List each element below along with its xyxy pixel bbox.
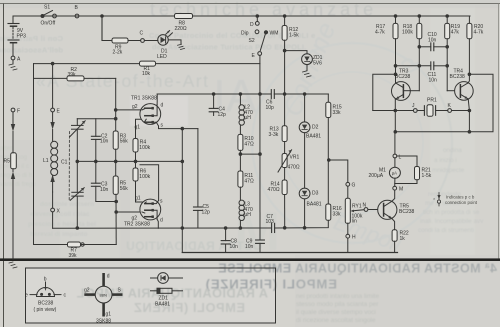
svg-text:10n: 10n [100,187,109,193]
wire L to M1 [394,158,396,167]
node X [51,208,55,212]
junction node D stub [256,15,259,18]
node B [75,14,79,18]
junction W1 centre column [259,93,262,96]
wire R4 to bus [135,152,137,161]
svg-text:BA481: BA481 [306,134,321,140]
wire X down to AF row [52,212,54,228]
junction TR4 emitter J row [468,109,471,112]
junction R18 [418,15,421,18]
wire R20 to collector junction [468,39,470,75]
LED D1 [158,31,173,46]
svg-text:g1: g1 [106,312,112,318]
junction [101,15,104,18]
wire stub to D [256,16,258,22]
wire R10 R11 [239,150,241,171]
svg-text:47k: 47k [451,30,460,36]
svg-text:56k: 56k [120,186,129,192]
svg-text:33k: 33k [333,110,342,116]
wire TR3 emitter down [394,99,396,132]
svg-text:G: G [352,183,356,189]
svg-text:Dip: Dip [241,31,249,37]
wire to ZD1 [285,51,307,54]
junction W1 L2 [239,93,242,96]
junction emitter J row [394,109,397,112]
wire K to TR4 emitter [452,110,470,112]
svg-text:4-7k: 4-7k [375,30,385,36]
svg-text:2-2k: 2-2k [113,50,123,56]
svg-text:10n: 10n [245,244,254,250]
node L [393,154,397,158]
resistor R5 [113,176,118,194]
svg-text:C1: C1 [61,160,68,166]
svg-text:LED: LED [157,54,167,60]
wire TR4 emitter down [468,99,469,111]
junction C10 left [418,46,421,49]
wire TR4 collector up [468,74,470,83]
wire R5a to bottom rail [12,179,14,259]
svg-text:connection point: connection point [445,200,478,205]
MOSFET TR1 [140,104,161,126]
svg-text:g1: g1 [135,125,141,131]
BC238 pin view [30,282,62,297]
svg-text:10n: 10n [429,78,438,84]
svg-text:D3: D3 [312,191,319,197]
meter M1 [389,167,400,178]
transistor TR4 [455,82,474,101]
wire R13 to VR1 [284,142,286,154]
audio bus [77,160,182,162]
junction centre column tap [259,153,262,156]
bottom headline mirrored row1 [76,239,497,315]
ground D1 [178,44,185,49]
wire centre column from E [259,55,261,239]
svg-text:1-5k: 1-5k [289,33,299,39]
svg-text:d: d [161,103,164,109]
wire collector stub left [373,74,396,110]
legend pcb symbol [433,193,441,207]
switch S2 contacts [255,30,259,34]
junction L3 AF row [239,227,242,230]
svg-text:R5: R5 [4,159,11,165]
wire R19 to TR4 base [447,90,460,92]
svg-text:d: d [160,218,163,224]
junction g2 [114,109,117,112]
wire tap to centre column [240,153,260,155]
wire R21 bottom [395,180,417,184]
zener ZD1 [302,54,313,65]
3SK88 labels [84,274,122,325]
junction W1 R13 col [283,93,286,96]
svg-text:220Ω: 220Ω [175,26,187,32]
wire to R18 [418,16,420,23]
svg-text:47Ω: 47Ω [244,178,254,184]
resistor R14 [282,180,287,195]
junction tap [239,153,242,156]
svg-text:lin: lin [352,219,357,225]
wire drain bus W1 [157,93,271,95]
thin 0V rail [182,252,397,254]
pcb point above R5a [11,112,15,132]
wire D1 to ground [168,40,181,44]
junction TR4 collector [468,73,471,76]
svg-text:470Ω: 470Ω [268,187,280,193]
junction C11 left [394,65,397,68]
junction G tap [328,159,331,162]
wire TR3 base to R18 col [410,90,419,92]
wire C3 down to corner [96,186,116,201]
wire J to PR1 [417,110,424,112]
svg-text:39k: 39k [68,72,77,78]
svg-text:4-7k: 4-7k [474,30,484,36]
inductor L2 [239,94,244,134]
wire L1 to X [52,192,54,208]
svg-text:D2: D2 [312,125,319,131]
bottom headline mirrored row2 [205,277,337,292]
wire R5 column lower [115,194,117,244]
svg-text:BC238: BC238 [450,74,466,80]
junction bus C2 [95,160,98,163]
capacitor C5 [194,129,203,228]
svg-text:BC238: BC238 [395,74,411,80]
wiper RV1 [351,210,365,213]
capacitor C2 [91,136,100,139]
wire C3 column [95,161,97,183]
pcb point below R5a [11,169,15,179]
wire to R19 [446,16,448,23]
switch S2 WM contact [264,31,267,34]
resistor R6 [133,168,138,181]
wire TR1 source down [159,126,198,129]
svg-text:470Ω: 470Ω [288,165,300,171]
wire E up to R1 row [52,64,54,109]
connection circle right of R7 [81,243,84,246]
svg-text:12p: 12p [218,112,227,118]
wire R9 to C [128,40,141,42]
resistor R16 [326,204,331,220]
wire R4 top / g1 TR1 [136,119,147,138]
svg-text:µA: µA [392,171,397,176]
junction emitter meter row [394,131,397,134]
node M [393,186,397,190]
svg-text:10k: 10k [142,71,151,77]
wire TR2 source up [140,165,159,201]
svg-text:10n: 10n [100,139,109,145]
svg-text:VR1: VR1 [290,155,300,161]
bottom thick rail / frame [0,258,500,261]
wire RV1 to H [347,223,349,234]
svg-text:1k: 1k [400,236,406,242]
faint stamp circles [252,43,452,243]
switch S1 [41,11,56,18]
wire VR1 to R14 [284,168,286,181]
right frame line [498,4,500,261]
svg-text:PP3: PP3 [17,34,27,40]
capacitor C3 [91,183,100,186]
ground battery [9,64,17,70]
junction source AF row [181,227,184,230]
crystal PR1 [424,105,447,117]
svg-text:D: D [250,22,254,28]
svg-text:5V6: 5V6 [313,61,322,67]
capacitor C6 [271,90,328,99]
pinout box [26,268,276,323]
junction ZD1 tap [283,49,286,52]
node E coil column [51,108,55,112]
capacitor C4 [209,94,218,116]
wire TR4 emitter column lower [468,111,470,132]
wire TR5 collector up [392,190,395,201]
resistor R10 [238,134,243,150]
right paragraph smudge text [418,147,484,234]
svg-text:N: N [363,203,367,209]
capacitor C11 [396,62,448,70]
wire TR2 drain down [157,219,158,228]
junction AF row R14 col [283,227,286,230]
svg-text:e: e [25,293,28,299]
svg-text:103: 103 [266,219,275,225]
diode D3 [299,133,310,228]
diode symbol ZD1 [150,273,183,284]
wire bus to R5 [115,161,117,176]
wire M1 to M [394,178,396,186]
svg-text:12p: 12p [202,209,211,215]
wire top supply rail [13,16,470,24]
svg-text:56k: 56k [120,139,129,145]
wire R20 column [468,16,470,23]
svg-text:47Ω: 47Ω [244,141,254,147]
svg-text:S1: S1 [44,5,50,11]
svg-text:RY1: RY1 [352,204,362,210]
wire to R12 [284,16,286,26]
junction g2 TR2 [115,211,118,214]
wire R2 row [34,77,116,79]
svg-text:88N: 88N [100,293,107,298]
node A [11,56,15,60]
transistor TR3 [392,82,411,101]
capacitor C8 [221,228,230,253]
feedback loop right [395,74,493,132]
svg-text:C: C [140,31,144,37]
resistor R20 [467,23,472,38]
pot VR1 [278,150,292,172]
capacitor C10 [419,43,447,51]
svg-text:TR2 3SK88: TR2 3SK88 [124,222,150,228]
svg-text:33k: 33k [333,212,342,218]
wire TR5 emitter down [392,218,395,229]
junction W1 C4 [212,93,215,96]
wire R19 column [446,39,448,91]
resistor R4 [133,139,138,153]
wire RV1 column [347,186,349,198]
svg-text:L1: L1 [43,158,49,164]
node C [141,39,145,43]
ground below rail [9,262,17,268]
wire C2 to bus [95,139,97,161]
wire R17 to TR3 [395,39,397,84]
wire to R17 [395,16,397,23]
junction C11 mid [418,65,421,68]
J K row wire [373,110,414,112]
junction bus R4 [134,160,137,163]
pot RV1 [345,198,350,223]
switch S2 blade [260,33,265,50]
junction TR4 emitter loop [468,131,471,134]
wire battery to ground [12,60,14,64]
box area print-through rows [76,286,268,301]
wire source column to rail [181,129,183,253]
svg-text:BA481: BA481 [307,202,322,208]
ZD1 BA481 labels [155,296,170,308]
svg-text:100k: 100k [402,30,413,36]
node K [448,109,452,113]
resistor R17 [393,23,398,38]
svg-text:1-5k: 1-5k [422,173,432,179]
svg-text:F: F [17,109,20,115]
junction C3 corner [115,200,118,203]
BC238 labels [25,277,67,313]
junction AF row D3 col [303,227,306,230]
svg-text:M: M [399,187,403,193]
AF row wire right of C7 [275,220,328,228]
wire g2 to TR1 [116,109,142,111]
wire R13 column [284,94,286,126]
resistor R19 [445,23,450,38]
junction TR3 collector stub [394,73,397,76]
diode package BA481 [150,288,183,293]
svg-text:100k: 100k [139,145,150,151]
svg-text:L: L [399,155,402,161]
junction W1 D2 col [303,93,306,96]
node J [413,109,417,113]
svg-text:d: d [107,274,110,280]
node H [346,234,350,238]
node N [364,208,368,212]
svg-text:BC238: BC238 [38,301,54,307]
resistor R13 [282,126,287,142]
wire R14 to AF row [284,195,286,229]
wire R15 column top [327,94,329,102]
junction C11 right [446,65,449,68]
junction R12 [283,15,286,18]
svg-text:S2: S2 [249,38,255,44]
pinout box interior light [26,268,276,323]
svg-text:g2: g2 [132,104,138,110]
svg-text:µH: µH [244,212,251,218]
gang link dashed [68,132,70,202]
wire C2 column [95,119,97,137]
AF row wire [53,227,271,229]
svg-text:200µA: 200µA [369,173,384,179]
pcb point above L1 [50,112,54,130]
left frame line [3,4,5,327]
transistor TR5 [378,200,397,219]
junction C10 right [446,46,449,49]
resistor R7 [68,242,81,247]
inductor L3 [239,187,244,228]
node G [346,182,350,186]
wire to R9 row [102,16,112,41]
capacitor C7 trimmer [272,223,275,232]
svg-text:On/Off: On/Off [41,21,56,27]
tuning capacitor C1 gang 1 [70,119,85,162]
wire H to rail [347,238,349,252]
svg-text:3SK88: 3SK88 [96,319,111,325]
svg-text:10n: 10n [428,38,437,44]
svg-text:10p: 10p [266,105,275,111]
wire ZD1 to ground [306,65,308,71]
pcb point below L1 [50,175,54,193]
wire C to D1 [144,40,157,42]
node F [11,108,15,112]
svg-text:100k: 100k [139,174,150,180]
wire R22 to rail [394,241,396,252]
wire g2 to TR2 [116,211,142,213]
astable: junction R17 [394,15,397,18]
wire G tap [329,160,348,182]
svg-text:µH: µH [244,115,251,121]
wire R18 column [418,39,420,91]
junction C2 top [114,117,117,120]
svg-text:b: b [44,277,47,283]
junction source drop [181,127,184,130]
wire left drop [33,64,35,245]
MOSFET TR2 [140,199,161,220]
resistor R5 (coil damping) [11,153,17,169]
resistor R12 [282,26,287,41]
wire N to TR5 base [368,209,384,211]
node E (S2 pole) [258,52,262,56]
wire R12 down [284,40,286,94]
svg-text:WM: WM [270,31,279,37]
battery 9V PP3 [8,24,19,57]
R21 shunt loop [397,156,417,167]
wire R7 row [34,244,117,246]
wire F column [12,132,14,153]
resistor R21 [415,167,420,180]
node D [255,22,259,26]
svg-text:BA481: BA481 [155,302,170,308]
meter column wire [394,132,396,154]
top frame line [0,3,500,5]
svg-text:3-3k: 3-3k [269,132,279,138]
resistor R1 [140,61,156,66]
svg-text:PR1: PR1 [427,98,437,104]
svg-text:39k: 39k [69,253,78,259]
3SK88 pinout [84,273,122,317]
wire C1/C2 top row [77,118,115,120]
ground ZD1 [303,71,312,77]
wire R1 row [34,63,261,65]
wire R15 to R16 [327,118,329,205]
resistor R3 [113,131,118,149]
svg-text:Indicates p c b: Indicates p c b [446,195,475,200]
svg-text:( pin view): ( pin view) [34,307,57,313]
capacitor C9 [256,240,265,253]
resistor R22 [392,230,397,242]
mirrored patron text left [0,34,63,55]
junction source bus cross [181,160,184,163]
svg-text:H: H [352,235,356,241]
resistor R2 [67,76,84,81]
resistor R11 [238,171,243,187]
faint extra print-through row [126,239,262,253]
wire TR1 drain up [156,94,158,105]
svg-text:TR1 3SK88: TR1 3SK88 [131,96,157,102]
diode D2 [299,94,310,133]
junction E column top [51,62,54,65]
resistor R9 [112,38,128,43]
